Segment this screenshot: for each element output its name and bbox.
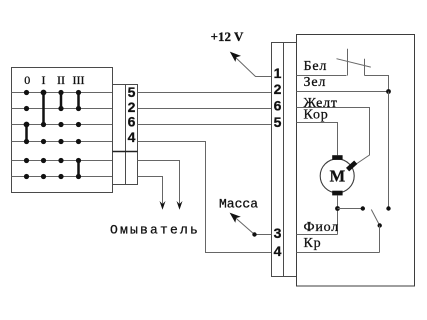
wire from limit switch down to node A [365,76,389,92]
wire row 6 (inside switch, washer feed) [12,176,113,178]
svg-text:0: 0 [24,73,30,87]
contact bridge column I rows 1-3 [42,93,45,125]
limit switch contact stub 2 [364,59,366,76]
wire row 1 (inside switch, to pin 5 of X1) [12,92,113,94]
wire row5 washer feed (down to arrow) [138,161,180,208]
washer arrow left [160,201,166,210]
contact dots row 1 [24,90,81,96]
svg-text:Зел: Зел [304,75,327,90]
limit switch blade (diagonal) [337,59,371,67]
svg-text:II: II [57,73,65,87]
svg-text:5: 5 [128,84,136,100]
motor brush top [332,155,342,160]
wire row6 washer feed (down to arrow) [138,177,163,208]
svg-text:М: М [330,167,346,186]
svg-text:I: I [42,73,46,87]
svg-text:Омыватель: Омыватель [110,223,200,238]
park switch pivot dot [378,223,382,227]
connector X2 body (motor-unit connector) [272,43,297,277]
contact bridge column III rows 5-6 [77,161,80,177]
svg-text:Масса: Масса [219,197,258,212]
wire node A down to park switch contact [388,92,390,209]
wire Кр riser from blade pivot [379,226,381,253]
node A junction dot [386,89,391,94]
+12V supply arrow to pin 1 [230,52,272,77]
switch position labels 0 I II III [24,73,84,87]
contact dots row 3 [24,122,82,128]
wire row 2 (inside switch, to pin 2 of X1) [12,108,113,110]
connector X1 body (middle connector) [113,85,138,185]
node B junction dot [335,206,340,211]
wire row3 to connector X2 pin 5 [138,124,272,126]
park contact left dot [361,206,365,210]
wire row1 to connector X2 pin 2 [138,92,272,94]
contact bridge column 0 rows 3-4 [25,125,28,142]
contact dots row 4 [24,139,81,144]
svg-text:+12 V: +12 V [211,29,244,44]
wire node B to park contact left [338,208,363,210]
wire Фиол (violet) from pin 3 to node B [297,234,338,236]
svg-text:1: 1 [274,65,282,81]
limit switch contact stub 1 [347,49,349,76]
motor brush upper-right [346,161,357,172]
contact dots row 2 [24,106,81,111]
wire row 4 (inside switch, to pin 4 of X1) [12,141,113,143]
svg-text:2: 2 [274,81,282,97]
svg-text:6: 6 [274,98,282,114]
wire Кор (brown) from pin 5 to motor top brush [297,123,338,156]
contact bridge column II rows 1-2 [60,93,63,109]
svg-text:Кр: Кр [304,236,322,251]
contact bridge column III rows 1-2 [77,93,80,109]
contact dots row 5 [24,158,81,163]
svg-text:3: 3 [274,225,282,241]
svg-text:4: 4 [128,129,136,145]
contact dots row 6 [24,174,81,179]
svg-text:Бел: Бел [304,59,328,74]
motor unit enclosure box [297,35,415,287]
wire row 5 (inside switch, washer feed) [12,160,113,162]
wire Желт (yellow) from pin 6 to motor brush [297,108,370,168]
motor M1 body [320,159,354,193]
svg-text:III: III [73,73,85,87]
park switch blade [371,210,379,226]
wire motor bottom brush to node B [337,195,339,234]
park contact right dot [386,206,390,210]
wire Бел (white) from pin 1 [297,75,347,77]
svg-text:Фиол: Фиол [304,220,340,235]
svg-text:5: 5 [274,114,282,130]
svg-text:6: 6 [128,114,136,130]
svg-text:4: 4 [274,243,282,259]
switch S1 body (stalk switch contact box) [12,68,113,193]
svg-text:Кор: Кор [304,108,329,123]
wire row 3 (inside switch, to pin 6 of X1) [12,124,113,126]
washer arrow right [177,201,183,210]
wire row2 to connector X2 pin 6 [138,108,272,110]
ground wire to pin 3 (Масса) [230,213,272,237]
wire row4 to connector X2 pin 4 (down and across) [138,142,272,253]
wire Зел (green) from pin 2 [297,91,389,93]
wire Кр (red) from pin 4 [297,252,380,254]
motor brush bottom [332,191,342,196]
